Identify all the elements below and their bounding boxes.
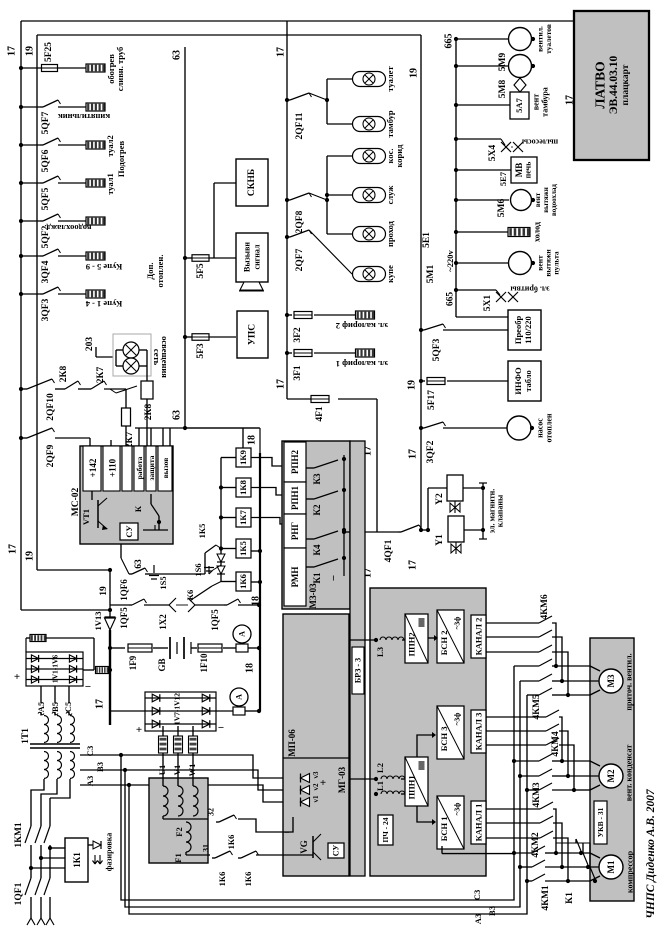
svg-text:А: А (235, 694, 244, 700)
svg-text:сигнал: сигнал (253, 244, 262, 269)
svg-text:1К5: 1К5 (197, 524, 207, 539)
svg-text:−: − (328, 575, 340, 581)
svg-text:МС-02: МС-02 (71, 488, 81, 517)
svg-text:защита: защита (147, 455, 156, 480)
svg-text:63: 63 (134, 559, 144, 569)
svg-text:1Т1: 1Т1 (21, 728, 31, 744)
svg-text:В3: В3 (95, 762, 105, 772)
svg-text:С3: С3 (85, 746, 95, 756)
svg-text:ППН2: ППН2 (407, 632, 417, 656)
svg-text:холод: холод (533, 222, 542, 242)
svg-text:19: 19 (409, 68, 420, 78)
svg-text:2QF8: 2QF8 (295, 210, 305, 233)
svg-text:1QF1: 1QF1 (14, 882, 24, 905)
svg-text:5X1: 5X1 (483, 295, 493, 312)
svg-text:19: 19 (99, 586, 109, 596)
svg-text:корид: корид (394, 144, 404, 168)
svg-text:БСН 1: БСН 1 (439, 817, 449, 842)
svg-text:17: 17 (408, 449, 419, 459)
svg-text:19: 19 (407, 380, 418, 390)
svg-text:насос: насос (536, 418, 545, 438)
svg-text:К4: К4 (312, 544, 322, 556)
svg-text:А3: А3 (473, 914, 483, 924)
svg-text:~3ф: ~3ф (453, 713, 462, 726)
svg-text:5QF7: 5QF7 (41, 111, 51, 134)
svg-text:ЭВ.44.03.10: ЭВ.44.03.10 (608, 55, 620, 114)
svg-text:5М9: 5М9 (498, 53, 508, 72)
svg-text:4КМ4: 4КМ4 (551, 731, 561, 757)
svg-text:110/220: 110/220 (523, 316, 533, 343)
svg-text:РНГ: РНГ (290, 522, 300, 540)
svg-text:ИНФО: ИНФО (513, 367, 523, 395)
svg-text:Купе 1 - 4: Купе 1 - 4 (85, 299, 122, 309)
svg-text:L3: L3 (375, 647, 385, 657)
svg-text:К3: К3 (312, 473, 322, 485)
svg-text:1S6: 1S6 (193, 563, 203, 576)
svg-text:1V13: 1V13 (93, 612, 103, 631)
svg-text:1К7: 1К7 (238, 509, 248, 524)
svg-text:МГ-03: МГ-03 (337, 766, 347, 793)
svg-text:работа: работа (135, 456, 144, 479)
svg-text:А: А (238, 631, 247, 637)
svg-text:ПЧ - 24: ПЧ - 24 (381, 817, 390, 842)
svg-text:пульта: пульта (552, 251, 561, 275)
svg-text:V1: V1 (172, 765, 182, 775)
svg-text:+: + (136, 724, 142, 736)
svg-text:18: 18 (247, 435, 258, 445)
svg-text:1КМ1: 1КМ1 (14, 822, 24, 848)
svg-text:+110: +110 (108, 458, 118, 477)
svg-text:5F25: 5F25 (44, 42, 54, 62)
svg-text:1К6: 1К6 (217, 872, 227, 887)
svg-text:вытяжн: вытяжн (542, 187, 550, 213)
svg-text:РПН2: РПН2 (290, 450, 300, 474)
svg-text:М2: М2 (606, 769, 616, 782)
svg-text:−: − (85, 681, 91, 693)
svg-text:1QF5: 1QF5 (210, 609, 220, 631)
svg-text:1К8: 1К8 (238, 480, 248, 495)
svg-text:63: 63 (172, 50, 183, 60)
svg-text:печь: печь (524, 161, 533, 178)
svg-text:665: 665 (444, 34, 455, 49)
svg-text:служ: служ (385, 185, 395, 205)
svg-text:L2: L2 (375, 763, 385, 773)
svg-text:5Е1: 5Е1 (422, 232, 432, 248)
svg-text:СКНБ: СКНБ (247, 169, 257, 196)
svg-text:Доп.: Доп. (145, 262, 155, 279)
svg-text:19: 19 (25, 46, 36, 56)
svg-text:4КМ6: 4КМ6 (540, 594, 550, 620)
svg-text:5QF6: 5QF6 (41, 149, 51, 172)
svg-text:3QF2: 3QF2 (426, 440, 436, 463)
svg-text:эл. калориф 1: эл. калориф 1 (336, 359, 389, 369)
svg-text:4КМ5: 4КМ5 (532, 694, 542, 720)
svg-text:Y2: Y2 (435, 493, 445, 505)
svg-text:5М8: 5М8 (498, 80, 508, 99)
svg-text:1К6: 1К6 (243, 872, 253, 887)
svg-text:компрессор: компрессор (626, 850, 635, 893)
svg-text:ППН1: ППН1 (407, 775, 417, 799)
svg-text:отоплен.: отоплен. (155, 255, 165, 288)
svg-text:2К8: 2К8 (144, 404, 154, 421)
svg-text:К1: К1 (565, 892, 575, 904)
svg-text:кипятильник: кипятильник (58, 112, 110, 122)
svg-text:плацкарт: плацкарт (621, 64, 631, 105)
svg-text:−: − (218, 722, 224, 734)
svg-text:5F5: 5F5 (196, 263, 206, 279)
svg-text:вент: вент (532, 94, 541, 110)
svg-text:1QF6: 1QF6 (119, 579, 129, 601)
svg-text:клапаны: клапаны (496, 494, 505, 527)
svg-text:~3ф: ~3ф (453, 803, 462, 816)
svg-text:пылесосы: пылесосы (521, 138, 558, 147)
svg-text:Вызывн: Вызывн (243, 242, 252, 272)
svg-text:К2: К2 (312, 504, 322, 516)
svg-text:665: 665 (446, 292, 456, 307)
svg-text:2К7: 2К7 (96, 367, 106, 384)
svg-text:1S5: 1S5 (158, 576, 168, 589)
svg-text:К1: К1 (312, 572, 322, 584)
svg-text:тамбура: тамбура (541, 87, 550, 117)
svg-text:VT1: VT1 (81, 509, 91, 525)
svg-text:приточ. вентил.: приточ. вентил. (625, 653, 634, 710)
svg-text:5М1: 5М1 (426, 265, 436, 284)
svg-text:1К6: 1К6 (238, 574, 248, 589)
svg-text:17: 17 (7, 46, 18, 56)
svg-text:2QF10: 2QF10 (46, 393, 56, 421)
svg-text:5QF5: 5QF5 (41, 187, 51, 210)
svg-text:v1: v1 (312, 795, 320, 803)
svg-text:М1: М1 (606, 860, 616, 873)
svg-text:ЧНПС Диденко А.В. 2007: ЧНПС Диденко А.В. 2007 (645, 788, 657, 919)
svg-text:GB: GB (157, 658, 167, 671)
svg-text:эл. бритвы: эл. бритвы (510, 285, 550, 294)
svg-text:КАНАЛ 2: КАНАЛ 2 (474, 618, 484, 656)
svg-text:63: 63 (172, 410, 183, 420)
svg-text:1F9: 1F9 (128, 655, 138, 670)
svg-text:туалетов: туалетов (544, 24, 553, 54)
svg-text:сливн. труб: сливн. труб (115, 47, 125, 91)
svg-text:С5: С5 (63, 702, 73, 712)
svg-text:водоохлажд.: водоохлажд. (45, 223, 92, 233)
svg-text:ЛАТВО: ЛАТВО (593, 61, 608, 108)
svg-text:В5: В5 (50, 702, 60, 712)
svg-text:5Е7: 5Е7 (498, 171, 508, 186)
svg-text:Купе 5 - 9: Купе 5 - 9 (86, 262, 123, 272)
svg-text:проход: проход (385, 220, 395, 247)
svg-text:3F2: 3F2 (293, 327, 303, 343)
svg-text:туал2: туал2 (105, 135, 115, 157)
svg-text:водоохлад: водоохлад (550, 184, 558, 216)
svg-text:вент: вент (534, 192, 542, 207)
svg-text:17: 17 (276, 379, 287, 389)
svg-text:v3: v3 (312, 771, 320, 779)
svg-text:17: 17 (8, 544, 19, 554)
svg-text:БСН 2: БСН 2 (439, 631, 449, 656)
svg-text:МВ: МВ (514, 163, 524, 178)
svg-text:17: 17 (276, 47, 287, 57)
svg-text:2QF9: 2QF9 (46, 444, 56, 467)
svg-text:3QF3: 3QF3 (41, 298, 51, 321)
svg-text:−: − (284, 827, 290, 839)
svg-text:3F1: 3F1 (293, 365, 303, 381)
svg-text:туал1: туал1 (105, 173, 115, 195)
svg-text:туалет: туалет (385, 66, 395, 92)
svg-text:СУ: СУ (124, 525, 134, 538)
svg-text:~220v: ~220v (445, 250, 455, 272)
svg-text:БСН 3: БСН 3 (439, 727, 449, 752)
svg-text:5F17: 5F17 (427, 390, 437, 410)
svg-text:КАНАЛ 3: КАНАЛ 3 (474, 713, 484, 751)
svg-text:1Х2: 1Х2 (158, 614, 168, 630)
svg-text:+142: +142 (88, 458, 98, 477)
svg-text:отоплен: отоплен (545, 413, 554, 442)
svg-text:МЗ-03: МЗ-03 (308, 583, 318, 609)
svg-text:купе: купе (385, 265, 395, 283)
svg-text:К: К (133, 505, 143, 512)
svg-text:освещения: освещения (160, 336, 170, 378)
svg-text:БРЗ - 3: БРЗ - 3 (354, 658, 363, 683)
svg-text:1К6: 1К6 (226, 835, 236, 850)
svg-text:4КМ2: 4КМ2 (531, 832, 541, 858)
svg-text:+: + (14, 671, 20, 683)
svg-text:5QF3: 5QF3 (432, 338, 442, 361)
svg-text:31: 31 (202, 844, 211, 852)
svg-text:3QF4: 3QF4 (41, 260, 51, 283)
svg-text:М3: М3 (606, 674, 616, 687)
svg-text:18: 18 (245, 663, 256, 673)
svg-text:L1: L1 (375, 781, 385, 791)
svg-text:U1: U1 (157, 765, 167, 775)
svg-text:табло: табло (523, 370, 533, 392)
svg-text:19: 19 (25, 551, 36, 561)
svg-text:Подогрев: Подогрев (116, 141, 126, 178)
svg-text:F2: F2 (174, 827, 184, 836)
svg-text:Преобр: Преобр (513, 316, 523, 345)
svg-text:А3: А3 (85, 776, 95, 786)
svg-text:v2: v2 (312, 783, 320, 791)
svg-text:2QF11: 2QF11 (295, 112, 305, 139)
svg-text:Y1: Y1 (435, 534, 445, 546)
svg-text:1К9: 1К9 (238, 450, 248, 465)
svg-text:1V7-1V12: 1V7-1V12 (173, 693, 182, 725)
svg-text:2К8: 2К8 (59, 366, 69, 383)
svg-text:УПС: УПС (248, 324, 258, 345)
svg-text:1F10: 1F10 (199, 653, 209, 672)
svg-text:вызов: вызов (161, 458, 170, 479)
svg-text:РМН: РМН (290, 567, 300, 588)
svg-text:17: 17 (408, 560, 419, 570)
svg-text:~3ф: ~3ф (453, 617, 462, 630)
svg-text:А5: А5 (36, 702, 46, 712)
svg-text:СУ: СУ (332, 845, 341, 857)
svg-text:4QF1: 4QF1 (384, 539, 394, 562)
svg-text:F1: F1 (173, 853, 183, 862)
svg-text:фазировка: фазировка (105, 833, 114, 871)
svg-text:УКВ - 31: УКВ - 31 (596, 807, 605, 837)
svg-text:+: + (320, 777, 326, 789)
svg-text:эл. калориф 2: эл. калориф 2 (336, 321, 389, 331)
svg-text:4КМ3: 4КМ3 (532, 782, 542, 808)
svg-text:5А7: 5А7 (514, 97, 524, 112)
svg-text:2QF7: 2QF7 (295, 248, 305, 271)
svg-text:4КМ1: 4КМ1 (541, 885, 551, 911)
svg-text:тамбур: тамбур (385, 110, 395, 137)
svg-text:VG: VG (299, 840, 309, 854)
svg-text:5М6: 5М6 (497, 199, 507, 218)
svg-text:1К5: 1К5 (238, 541, 248, 556)
svg-text:1К1: 1К1 (72, 852, 82, 868)
svg-text:КАНАЛ 1: КАНАЛ 1 (474, 804, 484, 842)
svg-text:МП-06: МП-06 (287, 729, 297, 757)
svg-text:РПН1: РПН1 (290, 486, 300, 510)
svg-text:5X4: 5X4 (488, 145, 498, 162)
svg-text:4F1: 4F1 (315, 406, 325, 422)
svg-text:203: 203 (85, 337, 95, 352)
svg-text:1QF5: 1QF5 (119, 607, 129, 629)
svg-text:вент. конденсат: вент. конденсат (625, 745, 634, 802)
svg-text:W1: W1 (187, 764, 197, 777)
svg-text:С3: С3 (472, 890, 482, 900)
svg-text:В3: В3 (487, 906, 497, 916)
svg-text:17: 17 (95, 699, 106, 709)
svg-text:5F3: 5F3 (196, 343, 206, 359)
svg-text:1V1-1V6: 1V1-1V6 (51, 655, 60, 684)
svg-text:32: 32 (207, 808, 216, 816)
